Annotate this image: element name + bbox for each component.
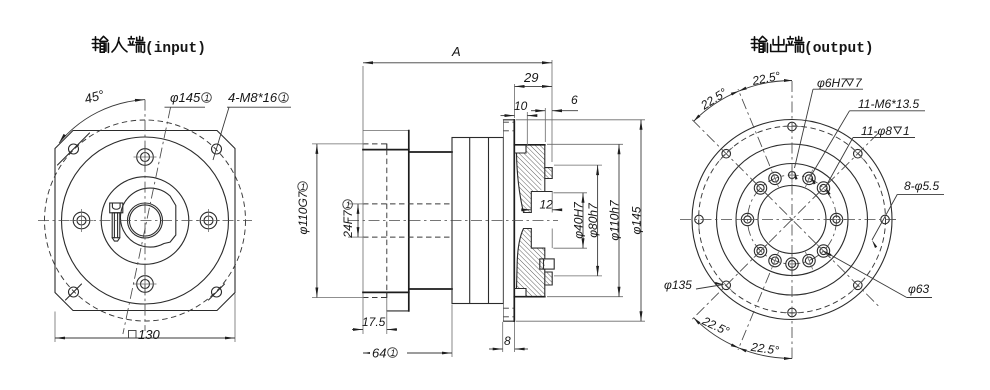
hidden mounting holes in disc: [503, 121, 514, 123]
svg-text:1: 1: [390, 348, 395, 358]
svg-text:24F7: 24F7: [341, 209, 355, 239]
svg-text:1: 1: [281, 93, 286, 103]
outer flange circle: [692, 120, 892, 320]
leader to corner hole: [213, 107, 229, 160]
45 degree dimension arc: [59, 100, 145, 143]
dimension 29: [514, 84, 516, 118]
bolt circle phi145 (dashed): [45, 120, 246, 321]
screw holes on boss (4x): [137, 149, 154, 166]
svg-text:11-M6*13.5: 11-M6*13.5: [858, 97, 919, 111]
spigot circle phi110: [717, 144, 868, 295]
clamp collar hub: [120, 188, 175, 247]
title: output end: [751, 36, 767, 52]
22.5deg dimension arcs bottom: [694, 318, 792, 359]
svg-text:12: 12: [540, 198, 554, 212]
dowel pin hole phi6H7: [789, 172, 796, 179]
hub circle: [758, 186, 826, 254]
svg-text:10: 10: [514, 99, 528, 113]
output section block (hatched): [517, 145, 553, 213]
dimension A (overall): [551, 60, 553, 162]
dimension 17.5: [386, 298, 388, 335]
svg-text:64: 64: [372, 346, 386, 361]
svg-text:8: 8: [504, 334, 511, 348]
svg-text:φ40H7: φ40H7: [572, 201, 586, 239]
svg-text:1: 1: [346, 200, 351, 210]
input flange square plate: [55, 131, 235, 311]
retainer ring detail: [540, 259, 554, 269]
svg-text:φ6H7: φ6H7: [817, 76, 848, 90]
svg-text:(output): (output): [804, 41, 874, 57]
input flange side outline: [362, 66, 364, 334]
svg-text:φ80h7: φ80h7: [586, 202, 600, 238]
22.5deg dimension arcs top: [694, 80, 792, 121]
horizontal centerline: [38, 220, 252, 222]
svg-text:1: 1: [903, 124, 910, 138]
dimension phi145: [516, 119, 645, 121]
8 mounting holes phi5.5: [788, 122, 797, 131]
dimension 24F7(1) rotated: [348, 203, 364, 205]
svg-text:8-φ5.5: 8-φ5.5: [904, 179, 940, 193]
body cylinder: [409, 151, 452, 153]
corner mounting holes 4-M8: [69, 144, 79, 154]
svg-text:(input): (input): [145, 41, 206, 57]
bolt circle phi135 (dashed): [699, 126, 886, 313]
svg-text:A: A: [451, 44, 461, 59]
boss circle phi80: [736, 164, 848, 276]
radial lines for 22.5deg dims: [738, 89, 770, 166]
11 tapped holes M6: [803, 172, 815, 184]
outer body circle: [62, 137, 229, 304]
title: input end (CJK drawn as paths): [92, 36, 108, 52]
diagonal centerline / phi145 leader: [123, 108, 171, 335]
vertical centerline: [791, 81, 793, 361]
dimension 10: [526, 112, 528, 146]
svg-text:φ145: φ145: [170, 90, 201, 105]
dimension square-130: [54, 312, 56, 343]
gear housing section: [452, 138, 503, 304]
svg-text:φ110G7: φ110G7: [296, 190, 310, 234]
svg-text:φ110h7: φ110h7: [608, 199, 622, 241]
hidden pilot recess phi110G7: [363, 143, 387, 145]
svg-text:1: 1: [204, 93, 209, 103]
dimension phi40H7: [553, 192, 587, 194]
horizontal centerline: [680, 219, 898, 221]
svg-text:11-φ8: 11-φ8: [861, 124, 892, 138]
svg-text:17.5: 17.5: [362, 315, 386, 329]
dimension 6: [544, 108, 546, 142]
svg-text:29: 29: [523, 70, 538, 85]
dimension 8: [502, 322, 504, 352]
dimension phi110h7: [547, 143, 623, 145]
input bore: [128, 203, 163, 238]
middle view centerline: [348, 220, 558, 222]
svg-text:φ135: φ135: [664, 278, 692, 292]
left view: input end: [38, 87, 291, 342]
dimension phi80h7: [554, 164, 602, 166]
clamp screw: [110, 203, 123, 213]
output flange disc: [502, 120, 504, 321]
svg-text:130: 130: [138, 327, 160, 342]
svg-text:φ63: φ63: [908, 282, 930, 296]
svg-text:4-M8*16: 4-M8*16: [228, 90, 278, 105]
svg-text:6: 6: [571, 93, 578, 107]
dimension 12: [524, 209, 531, 211]
dimension 64(1): [451, 305, 453, 358]
inner boss circle: [101, 177, 189, 265]
vertical centerline: [144, 100, 146, 331]
dimension phi110G7(1) rotated: [312, 143, 364, 145]
svg-text:1: 1: [301, 182, 306, 192]
bolt circle of 11 holes (dash-dot): [748, 175, 837, 264]
hidden input bore 24F7: [363, 203, 452, 205]
svg-text:φ145: φ145: [630, 206, 644, 234]
diagonal centerlines: [692, 120, 878, 306]
